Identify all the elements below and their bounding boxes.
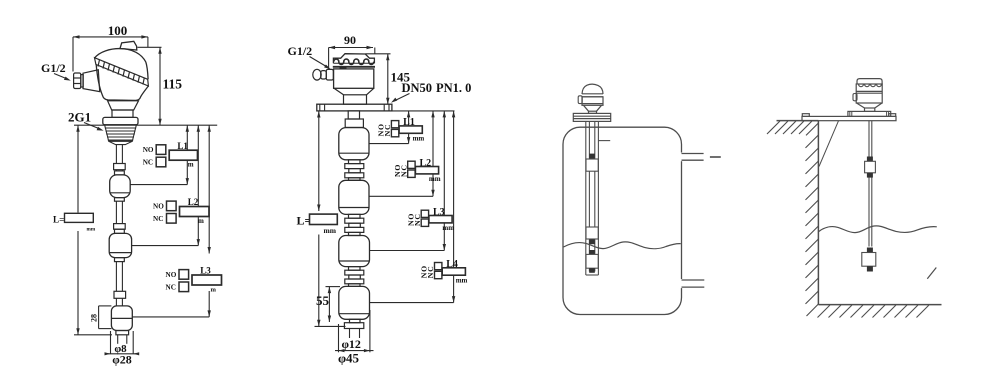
svg-text:mm: mm (429, 175, 441, 183)
svg-text:NC: NC (399, 164, 408, 177)
dimension line L3 (drawing 2) (443, 111, 446, 251)
dimension 145 (366, 54, 411, 104)
float F3 (bottom) (111, 306, 132, 331)
support brace (819, 121, 839, 167)
level gauge dash (710, 156, 721, 158)
switch label L3 (166, 266, 222, 294)
collar 3 (114, 291, 126, 298)
head (drawing 3) (582, 84, 603, 113)
floor hatching (818, 305, 930, 318)
label 2G1 (68, 110, 104, 131)
spacer collars 3 (345, 267, 364, 287)
stem middle (116, 201, 122, 223)
pipe tick (598, 140, 610, 142)
cable gland (drawing 2) (313, 69, 334, 80)
svg-text:NO: NO (153, 202, 164, 210)
sensor switch C (586, 250, 598, 273)
svg-text:55: 55 (316, 293, 330, 308)
svg-text:PN1. 0: PN1. 0 (436, 81, 471, 95)
float F1 centre line (drawing 2) (369, 143, 409, 145)
mounting flange plate (drawing 3) (573, 113, 610, 121)
float F4 centre line (drawing 2) (370, 302, 454, 304)
float F1 (drawing 2) (339, 128, 369, 160)
top nozzle (682, 154, 704, 161)
svg-text:m: m (198, 217, 204, 225)
svg-text:2G1: 2G1 (68, 110, 91, 125)
dimension 115 (head height) (138, 47, 183, 125)
wall hatching (806, 135, 819, 316)
svg-text:NC: NC (413, 213, 422, 226)
connection head dome (95, 49, 149, 80)
svg-text:L3: L3 (200, 266, 211, 276)
connection head knob (120, 41, 137, 50)
ground hatching (767, 121, 818, 135)
label G1/2 (drawing 2) (288, 44, 331, 69)
head taper (334, 88, 374, 95)
float F1 centre line (130, 184, 187, 186)
svg-text:m: m (211, 287, 217, 294)
stem bottom (116, 298, 122, 306)
svg-text:NO: NO (166, 271, 177, 279)
ground surface line (777, 120, 819, 122)
pit wall (817, 121, 819, 305)
bottom tube phi12 (350, 329, 360, 339)
upper float switch (drawing 4) (865, 157, 876, 178)
dimension line L1 (drawing 2) (407, 111, 410, 144)
float F2 (drawing 2) (339, 180, 369, 214)
dimension L= (left overall) (74, 125, 112, 335)
dimension 100 (top width) (73, 23, 148, 72)
head neck (108, 101, 139, 110)
switch label L2 (153, 197, 209, 225)
neck stub (112, 110, 133, 117)
float F3 centre line (132, 316, 209, 318)
head body (drawing 4) (856, 84, 882, 103)
dimension line L2 (drawing 2) (431, 111, 434, 196)
mounting plate (802, 114, 896, 121)
svg-text:G1/2: G1/2 (41, 61, 66, 75)
label L= box (drawing 2) (297, 214, 338, 236)
dimension phi8 (111, 331, 134, 355)
svg-text:NC: NC (426, 265, 435, 278)
switch label L4 (drawing 2) (420, 259, 468, 284)
svg-text:L1: L1 (177, 141, 188, 151)
label L= box (53, 213, 96, 232)
cable gland boss (83, 70, 100, 92)
dimension phi28 (105, 352, 140, 366)
svg-text:115: 115 (163, 77, 183, 92)
svg-text:φ28: φ28 (112, 353, 132, 367)
svg-text:90: 90 (344, 33, 356, 47)
dimension line L1 (186, 125, 189, 184)
dimension line L4 (drawing 2) (452, 111, 455, 303)
bottom nozzle (682, 280, 705, 287)
svg-text:NC: NC (383, 124, 392, 137)
flange DN50 (317, 104, 392, 111)
dimension line L2 (197, 125, 200, 245)
stem connection below flange (345, 111, 363, 128)
label DN50 (391, 81, 432, 103)
head foot (865, 108, 875, 111)
dimension L= (drawing 2) (315, 111, 346, 326)
guide pipe (586, 121, 599, 275)
bottom float switch (drawing 4) (862, 248, 876, 272)
svg-text:φ45: φ45 (338, 350, 360, 365)
svg-text:NC: NC (143, 159, 153, 167)
svg-text:mm: mm (324, 226, 337, 235)
probe wire (869, 121, 872, 247)
cable gland (drawing 3) (578, 96, 582, 104)
spacer collars 1 (345, 160, 364, 181)
liquid level wave (564, 242, 681, 249)
svg-text:mm: mm (442, 224, 454, 232)
stem lower (116, 262, 122, 292)
wire stem upper (116, 145, 122, 164)
switch label L1 (143, 141, 198, 169)
svg-text:28: 28 (90, 314, 99, 322)
dimension 90 (head width) (329, 33, 375, 70)
head neck (344, 95, 367, 104)
float F2 centre line (132, 245, 199, 247)
svg-text:mm: mm (413, 135, 425, 143)
cable gland (drawing 4) (853, 94, 857, 101)
datum line (drawing 2) (392, 110, 455, 112)
svg-text:DN50: DN50 (402, 81, 433, 95)
connection head hatched band (95, 58, 149, 86)
terminal head body (334, 69, 374, 88)
svg-text:NC: NC (153, 215, 163, 223)
head taper (drawing 4) (857, 103, 883, 108)
collar 2 (114, 224, 126, 230)
float F2 (109, 229, 131, 261)
stem gap (116, 170, 122, 171)
svg-text:L=: L= (53, 214, 64, 224)
float F4 (drawing 2) (339, 286, 370, 319)
cable gland G1/2 (74, 73, 84, 89)
dimension phi45 (335, 310, 374, 365)
switch label L3 (drawing 2) (406, 207, 454, 232)
datum line (74, 124, 217, 126)
sensor switch A (586, 154, 598, 172)
pit floor (818, 304, 941, 306)
switch label L1 (drawing 2) (377, 117, 425, 142)
svg-text:mm: mm (87, 227, 96, 233)
bottom cap (116, 331, 129, 335)
svg-text:L2: L2 (188, 197, 199, 207)
svg-text:NC: NC (166, 283, 176, 291)
float F1 (110, 171, 131, 201)
collar 1 (114, 164, 126, 170)
svg-text:φ12: φ12 (341, 337, 361, 351)
head cap with scallops (857, 79, 882, 87)
dimension 55 (float length) (316, 287, 340, 322)
svg-text:m: m (188, 161, 194, 169)
float F2 centre line (drawing 2) (369, 195, 433, 197)
threaded section 2G1 (105, 125, 137, 145)
dimension line L3 (208, 125, 211, 317)
label G1/2 (41, 61, 71, 81)
switch label L2 (drawing 2) (393, 158, 441, 183)
svg-text:NO: NO (143, 146, 154, 154)
svg-text:mm: mm (456, 276, 468, 284)
bottom cap (drawing 2) (344, 319, 363, 328)
spacer collars 2 (345, 214, 364, 235)
tank shell (563, 127, 682, 314)
connection head body (96, 65, 148, 101)
nozzle gaps (680, 153, 684, 289)
level mark dash (927, 268, 936, 279)
dimension 28 (float length) (90, 306, 112, 329)
terminal head cap (333, 54, 375, 69)
svg-text:100: 100 (108, 23, 128, 38)
liquid level wave (drawing 4) (819, 226, 937, 233)
thread cap nut (103, 117, 138, 124)
float F3 centre line (drawing 2) (370, 250, 445, 252)
svg-text:G1/2: G1/2 (288, 44, 313, 58)
float F3 (drawing 2) (339, 236, 370, 267)
sensor switch B (586, 227, 598, 244)
head flange (drawing 4) (848, 111, 891, 116)
bottom tube phi8 (118, 335, 127, 344)
